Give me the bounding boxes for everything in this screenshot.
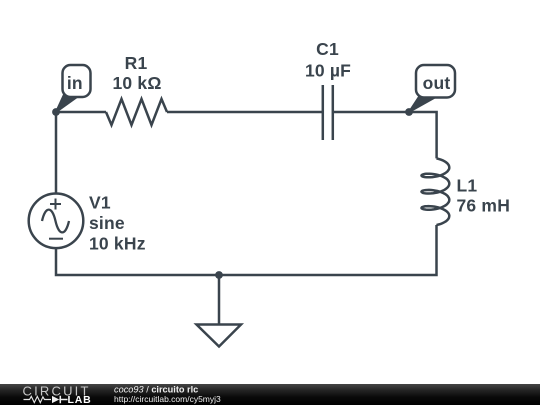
ground symbol bbox=[197, 325, 242, 347]
V1 minus sign bbox=[49, 238, 63, 240]
wire top-left node to resistor bbox=[56, 111, 106, 114]
node out dot bbox=[405, 108, 413, 116]
V1 plus sign bbox=[50, 199, 61, 210]
svg-text:10 kΩ: 10 kΩ bbox=[112, 73, 161, 93]
svg-text:coco93 / circuito rlc: coco93 / circuito rlc bbox=[114, 384, 198, 394]
ground wire bbox=[218, 275, 221, 325]
svg-text:out: out bbox=[423, 73, 451, 93]
in label box bbox=[63, 65, 91, 97]
svg-text:V1: V1 bbox=[89, 193, 111, 213]
footer bar bbox=[0, 384, 540, 405]
svg-text:LAB: LAB bbox=[68, 394, 92, 405]
svg-text:sine: sine bbox=[89, 213, 125, 233]
logo squiggle wire bbox=[24, 396, 52, 402]
in label tail bbox=[56, 94, 79, 113]
svg-text:L1: L1 bbox=[457, 176, 478, 196]
logo diode bar bbox=[59, 396, 67, 404]
node ground dot bbox=[215, 271, 223, 279]
resistor R1 bbox=[106, 99, 167, 125]
capacitor C1 bbox=[323, 85, 333, 140]
svg-text:76 mH: 76 mH bbox=[457, 196, 511, 216]
svg-text:C1: C1 bbox=[316, 39, 339, 59]
out label tail bbox=[409, 96, 434, 112]
out label box bbox=[416, 65, 455, 98]
logo diode symbol bbox=[52, 396, 59, 403]
wire source top to in node bbox=[55, 112, 58, 194]
svg-text:in: in bbox=[67, 73, 83, 93]
node in dot bbox=[52, 108, 60, 116]
wire inductor to bottom-right corner and bottom-left up to source bbox=[56, 225, 437, 275]
voltage source V1 bbox=[29, 194, 84, 249]
svg-text:10 kHz: 10 kHz bbox=[89, 234, 146, 254]
svg-text:10 µF: 10 µF bbox=[305, 61, 351, 81]
wire capacitor to out node and corner bbox=[333, 112, 437, 158]
wire resistor to capacitor bbox=[167, 111, 323, 114]
svg-text:R1: R1 bbox=[125, 53, 148, 73]
inductor L1 bbox=[422, 158, 450, 225]
svg-text:http://circuitlab.com/cy5myj3: http://circuitlab.com/cy5myj3 bbox=[114, 394, 221, 404]
V1 sine waveform bbox=[42, 210, 69, 233]
